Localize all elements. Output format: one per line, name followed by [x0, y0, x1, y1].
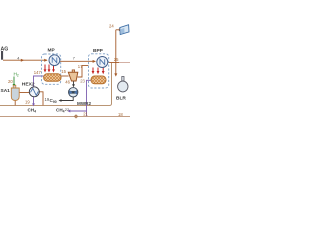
svg-text:CH4: CH4 — [56, 108, 65, 114]
svg-text:HEX2: HEX2 — [22, 82, 35, 88]
svg-text:CH4: CH4 — [28, 108, 37, 114]
svg-text:MP: MP — [48, 48, 56, 54]
svg-text:23: 23 — [80, 79, 85, 84]
svg-text:BLR: BLR — [116, 96, 126, 102]
svg-text:20: 20 — [8, 79, 13, 84]
svg-text:15: 15 — [61, 69, 66, 74]
svg-text:MWR2: MWR2 — [77, 101, 91, 106]
svg-text:24: 24 — [109, 24, 114, 29]
svg-text:19: 19 — [25, 100, 30, 105]
svg-text:7: 7 — [73, 57, 75, 61]
svg-text:19: 19 — [45, 97, 50, 102]
svg-text:SA1: SA1 — [1, 88, 11, 94]
svg-text:BPP: BPP — [93, 48, 104, 54]
svg-text:AG: AG — [1, 47, 9, 53]
svg-text:17: 17 — [78, 64, 83, 69]
svg-text:22: 22 — [65, 107, 70, 112]
svg-text:4: 4 — [17, 56, 19, 60]
svg-text:147: 147 — [34, 70, 42, 75]
svg-text:46: 46 — [65, 80, 70, 85]
svg-text:18: 18 — [118, 112, 123, 117]
svg-text:C90: C90 — [50, 98, 57, 104]
svg-text:21: 21 — [83, 112, 88, 117]
svg-text:25: 25 — [114, 57, 119, 62]
